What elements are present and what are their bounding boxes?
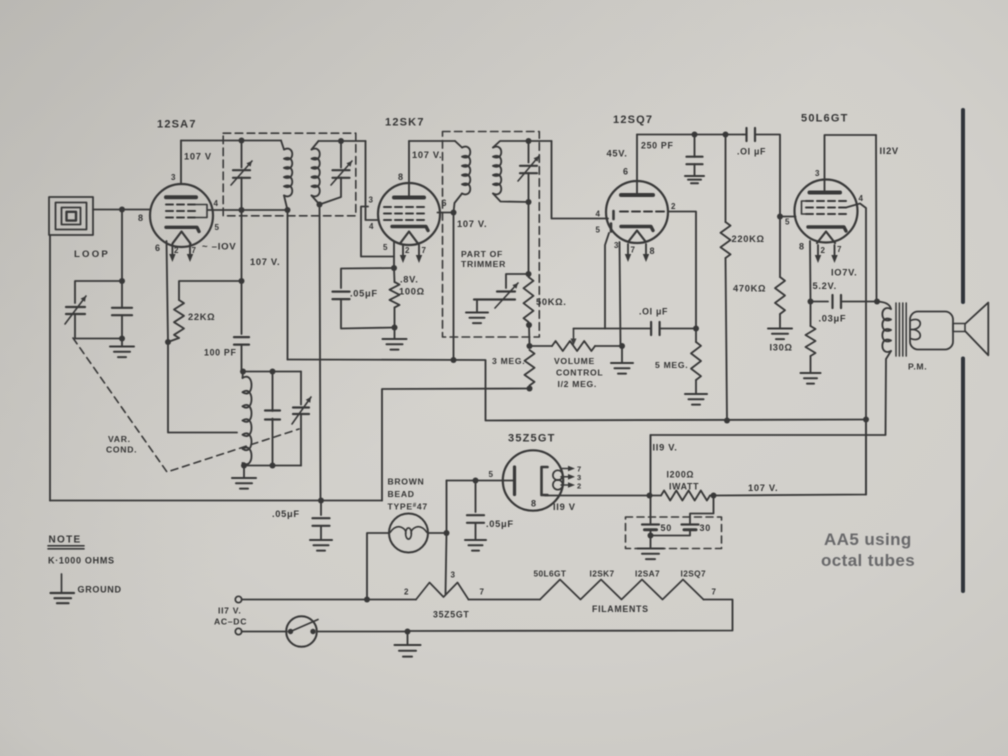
wire 12SK7 pin3 suppressor tie — [361, 207, 394, 257]
svg-text:50: 50 — [661, 523, 672, 533]
wire fixed cap top lead — [272, 372, 274, 412]
node 220K on bus — [724, 418, 730, 424]
wire primary bottom to 119V line — [651, 351, 892, 496]
svg-text:8: 8 — [531, 499, 537, 509]
wire 130ohm top lead — [810, 302, 812, 327]
svg-text:II9 V.: II9 V. — [653, 443, 678, 453]
svg-text:8: 8 — [398, 172, 404, 182]
switch lever — [291, 620, 319, 632]
capacitor C-plate .05uF plates — [467, 515, 484, 523]
inductor L4 IF2 secondary — [493, 147, 501, 195]
node 50L6 grid — [777, 214, 783, 220]
speaker driver rect — [953, 324, 965, 332]
svg-text:220KΩ: 220KΩ — [732, 234, 765, 244]
12SA7 heater pin 7 arrow — [187, 244, 193, 262]
svg-text:octal tubes: octal tubes — [821, 551, 915, 570]
svg-text:7: 7 — [480, 588, 485, 597]
wire 1200 right lead — [711, 495, 714, 497]
35Z5 heater tap arrow 3 — [561, 474, 575, 480]
node IF2 primary return on B+ bus — [451, 357, 457, 363]
svg-text:2: 2 — [405, 246, 410, 255]
svg-text:2: 2 — [404, 588, 409, 597]
svg-text:12SK7: 12SK7 — [385, 117, 425, 129]
wire 470K bottom lead — [779, 314, 781, 328]
wire cathode cap top lead — [341, 268, 394, 288]
wire cathode ground stem — [394, 328, 396, 339]
ground 5MEG — [685, 394, 707, 405]
wire wiper to coupling cap — [574, 328, 651, 330]
12SA7 cathode arrow — [173, 232, 191, 244]
wire 12SA7 plate rail — [181, 140, 281, 142]
svg-text:2: 2 — [671, 202, 676, 211]
node lamp return — [364, 597, 370, 603]
potentiometer R-VOL 1/2 MEG — [552, 341, 595, 351]
wire L3 bottom lead — [454, 194, 463, 213]
wire AVC link — [382, 389, 530, 501]
resistor R-50K 50KΩ — [524, 277, 534, 322]
capacitor C-coup .01uF plates — [651, 322, 660, 335]
wire 12SQ7 plate riser — [636, 135, 638, 182]
resistor R-22K 22KΩ — [174, 300, 184, 338]
wire IF2 sec rail right — [529, 140, 552, 142]
svg-text:TRIMMER: TRIMMER — [461, 259, 506, 269]
node 3MEG bottom — [527, 386, 533, 392]
node trimmer2 top — [338, 138, 344, 144]
speaker cone — [966, 303, 989, 356]
capacitor C-osc fixed plates — [265, 411, 280, 420]
svg-text:5 MEG.: 5 MEG. — [655, 360, 688, 370]
wire plate bypass stem — [475, 481, 477, 513]
svg-text:5: 5 — [596, 226, 601, 235]
wire padder ground lead — [476, 300, 478, 313]
wire L4 bottom down — [528, 202, 530, 274]
svg-text:45V.: 45V. — [607, 149, 628, 159]
svg-text:5: 5 — [785, 218, 790, 227]
capacitor C-k .05uF plates — [333, 292, 350, 300]
inductor L1 IF1 primary — [284, 149, 292, 197]
wire loop left side down to AVC bus — [49, 235, 51, 501]
wire coupling cap to grid riser — [660, 328, 696, 330]
tube 12SA7 envelope U1 — [150, 184, 213, 247]
wire 130ohm bottom lead — [810, 356, 812, 373]
wire line lower — [242, 631, 287, 633]
50L6GT cathode bar — [808, 227, 846, 231]
svg-text:II2V: II2V — [880, 146, 899, 156]
node 107V junction — [711, 493, 717, 499]
wire 50L6 pin4 screen — [846, 204, 866, 495]
svg-text:I30Ω: I30Ω — [770, 343, 793, 353]
wire 50L6 plate riser pin3 — [825, 135, 877, 180]
ground oscillator tank — [232, 478, 256, 489]
svg-text:8: 8 — [138, 213, 144, 223]
wire 50L6 plate stem — [824, 180, 826, 193]
inductor L-osc oscillator coil — [243, 377, 252, 465]
wire osc tank top — [243, 371, 301, 373]
svg-text:107 V.: 107 V. — [457, 219, 487, 229]
svg-text:II7 V.: II7 V. — [218, 606, 241, 616]
wire line upper — [242, 599, 416, 601]
wire pot left lead — [530, 345, 553, 347]
speaker voice coil frame — [910, 312, 953, 350]
dashed gang linkage VAR COND — [73, 338, 299, 472]
switch contact right — [310, 629, 315, 634]
wire AVC bypass stem — [320, 501, 322, 516]
wire trimmer3 top lead — [528, 141, 530, 163]
node fixed cap bottom — [270, 463, 276, 469]
svg-text:PART OF: PART OF — [461, 249, 503, 259]
wire L2 top lead — [312, 141, 319, 150]
variable capacitor C-osc-var plates — [293, 408, 309, 415]
35Z5 heater tap arrow 7 — [561, 466, 575, 472]
svg-text:.05μF: .05μF — [272, 509, 300, 519]
wire 50K to pot chain — [528, 325, 531, 346]
svg-text:AC–DC: AC–DC — [214, 617, 247, 627]
svg-text:IO7V.: IO7V. — [831, 268, 857, 278]
ground 250pF — [685, 176, 704, 183]
wire L1 top lead — [281, 141, 284, 150]
node L4 bottom — [526, 199, 532, 205]
capacitor C-pad (loop fixed) — [112, 308, 132, 315]
tube 12SQ7 envelope U3 — [606, 181, 668, 243]
svg-text:8: 8 — [650, 246, 656, 256]
wire filament mid — [469, 599, 541, 601]
svg-text:5.2V.: 5.2V. — [813, 281, 837, 291]
wire 12SK7 pin6 screen stub — [438, 212, 454, 214]
svg-text:VOLUME: VOLUME — [554, 356, 595, 366]
inductor T-out primary coil — [882, 308, 891, 352]
node L2 bottom — [317, 202, 323, 208]
svg-text:TYPE#47: TYPE#47 — [388, 502, 428, 512]
wire cathode cap bottom lead — [341, 299, 395, 329]
trimmer capacitor CT1 plates — [233, 170, 250, 178]
capacitor C-30 electrolytic plates — [682, 525, 699, 530]
svg-text:470KΩ: 470KΩ — [733, 284, 766, 294]
terminal lower 117V — [235, 628, 241, 634]
wire trimmer2 top lead — [340, 141, 342, 168]
svg-text:7: 7 — [837, 245, 842, 254]
wire 107V line — [714, 420, 867, 496]
wire rail through .01uF — [743, 134, 747, 136]
node IF2 sec top — [526, 138, 532, 144]
wire osc grid return down to AVC bus — [320, 205, 321, 501]
inductor L3 IF2 primary — [462, 147, 470, 195]
speaker baffle line upper — [961, 110, 965, 302]
svg-text:.OI μF: .OI μF — [737, 147, 766, 157]
wire 12SQ7 plate stem pin6 — [636, 181, 638, 195]
wire L4 bottom lead — [493, 194, 529, 203]
capacitor C-250pF plates — [687, 157, 703, 165]
wire 220K bottom to B+ bus — [726, 258, 728, 421]
wire 12SA7 pin6 to osc coil tap — [167, 241, 238, 433]
svg-text:107 V: 107 V — [184, 152, 212, 162]
resistor R-fil filament string — [540, 580, 704, 600]
pot wiper arrow — [571, 329, 577, 346]
svg-text:5: 5 — [215, 223, 220, 232]
wire 12SA7 pin4 screen line — [208, 209, 288, 211]
wire 35Z5 plate feed — [447, 480, 476, 482]
svg-text:COND.: COND. — [106, 445, 137, 455]
variable capacitor C-ant (loop tuning) — [66, 307, 85, 314]
svg-text:7: 7 — [631, 246, 636, 255]
output transformer secondary winding — [911, 319, 921, 339]
wire 250pF stem — [694, 135, 696, 157]
12SA7 grid dashes — [166, 205, 195, 218]
wire lamp left — [367, 533, 389, 600]
12SK7 anode bar — [394, 196, 424, 200]
svg-text:107 V.: 107 V. — [412, 150, 442, 160]
svg-text:4: 4 — [859, 194, 864, 203]
ground 12SK7 cathode — [383, 339, 407, 350]
wire tank ground stem — [121, 339, 123, 347]
node tank top — [119, 278, 125, 284]
wire tank left lower — [75, 314, 122, 339]
wire 12SQ7 plate rail — [637, 134, 743, 136]
12SQ7 diode plate pin5 — [610, 224, 613, 232]
svg-text:.05μF: .05μF — [486, 519, 514, 529]
wire 35Z5 cathode out — [545, 495, 650, 497]
svg-text:3: 3 — [614, 241, 619, 250]
svg-text:50L6GT: 50L6GT — [534, 569, 567, 579]
35Z5 heater tap arrow 2 — [561, 482, 575, 488]
svg-text:I200Ω: I200Ω — [667, 470, 695, 480]
wire 50L6 plate down to transformer — [875, 135, 878, 302]
node trimmer1 top — [239, 138, 245, 144]
ground 130ohm — [801, 373, 821, 384]
wire 35Z5 plate lead — [476, 480, 514, 482]
node tank bottom — [119, 336, 125, 342]
wire osc tank ground stem — [243, 466, 245, 478]
wire .01uF to 50L6 grid — [755, 135, 780, 217]
wire IF2 primary return — [453, 213, 455, 361]
capacitor C-out .01uF plates — [747, 128, 756, 141]
node 50K bottom — [526, 322, 532, 328]
switch SW1 — [286, 616, 317, 647]
wire trimmer1 top lead — [241, 141, 243, 168]
output transformer core — [896, 303, 906, 356]
osc var cap arrow — [292, 397, 311, 424]
svg-text:K·1000 OHMS: K·1000 OHMS — [48, 556, 115, 566]
wire 119V riser — [650, 435, 652, 496]
wire 12SK7 plate riser pin8 — [408, 141, 410, 183]
node padder junction — [526, 271, 532, 277]
resistor R-5MEG 5 MEG — [691, 342, 701, 380]
12SK7 grid dashes — [384, 207, 424, 220]
node cathode bypass — [808, 299, 814, 305]
svg-text:3 MEG.: 3 MEG. — [492, 356, 525, 366]
wire 50L6 cathode pin8 down — [809, 241, 812, 302]
wire loop to 12SA7 grid — [93, 209, 150, 211]
svg-text:3: 3 — [815, 169, 820, 178]
node tank bottom left — [241, 463, 247, 469]
node pot left end — [527, 343, 533, 349]
svg-text:6: 6 — [623, 167, 629, 177]
switch contact left — [288, 629, 293, 634]
svg-text:50KΩ.: 50KΩ. — [536, 297, 567, 307]
NOTE underline — [48, 546, 84, 549]
wire tank right upper — [121, 281, 123, 308]
svg-text:I2SA7: I2SA7 — [635, 569, 660, 579]
ground plate bypass — [465, 540, 486, 551]
svg-text:100 PF: 100 PF — [204, 348, 237, 358]
svg-text:BROWN: BROWN — [388, 477, 425, 487]
wire lamp right lead — [428, 532, 447, 534]
node L1 bottom — [285, 207, 291, 213]
wire var cap bottom lead — [300, 414, 302, 466]
wire 250pF ground stem — [694, 164, 696, 176]
node 220K top — [723, 132, 729, 138]
wire B+ bus — [288, 360, 867, 421]
wire 12SK7 plate rail to IF2 — [409, 140, 455, 142]
node grid riser bottom — [693, 326, 699, 332]
speaker baffle line lower — [961, 359, 965, 592]
svg-text:7: 7 — [192, 246, 197, 255]
pilot lamp filament — [390, 527, 427, 539]
12SK7 heater pin 2 arrow — [400, 245, 406, 263]
resistor R-k 100ohm — [390, 282, 400, 308]
svg-text:22KΩ: 22KΩ — [188, 312, 215, 322]
trimmer CT3 arrow — [518, 156, 539, 181]
ground 470K — [768, 329, 792, 340]
svg-text:5: 5 — [383, 243, 388, 252]
svg-text:FILAMENTS: FILAMENTS — [592, 604, 649, 614]
capacitor C-avc .05uF plates — [313, 518, 330, 526]
50L6 heater pin 2 arrow — [815, 245, 821, 263]
wire L2 bottom lead — [312, 196, 320, 205]
svg-text:100Ω: 100Ω — [399, 287, 425, 297]
node L3 bottom / screen — [451, 210, 457, 216]
inductor L2 IF1 secondary — [312, 149, 320, 197]
wire osc coil top lead — [242, 372, 245, 379]
trimmer CT2 arrow — [331, 161, 352, 185]
wire switch to ground node — [317, 631, 408, 633]
padder arrow — [495, 283, 518, 308]
wire 22K bottom lead — [168, 338, 179, 342]
wire trimmer2 bottom lead — [320, 178, 342, 205]
loop antenna LOOP — [49, 197, 93, 235]
svg-text:.03μF: .03μF — [819, 314, 847, 324]
12SQ7 cathode bar — [621, 227, 653, 231]
wire var cap top lead — [300, 372, 302, 405]
svg-text:35Z5GT: 35Z5GT — [508, 433, 556, 445]
12SQ7 anode bar — [621, 193, 653, 197]
node transformer primary top — [874, 299, 880, 305]
wire cap30 top lead — [690, 496, 714, 525]
node plate bypass — [473, 478, 479, 484]
wire pot ground stem — [621, 346, 623, 363]
svg-text:8: 8 — [799, 242, 805, 252]
50L6GT cathode arrow — [817, 232, 835, 244]
50L6GT grid dashes — [806, 201, 846, 214]
ground filter caps — [638, 549, 664, 560]
svg-text:250 PF: 250 PF — [641, 141, 674, 151]
12SA7 cathode bar — [166, 227, 199, 231]
wire L3 top lead — [455, 141, 462, 148]
wire cap50 stem — [650, 496, 652, 525]
ground under loop tank — [110, 347, 134, 358]
svg-text:107 V.: 107 V. — [250, 257, 280, 267]
svg-text:II9 V: II9 V — [553, 502, 576, 512]
wire 12SA7 pin3 plate riser — [180, 141, 182, 185]
resistor R-470K 470KΩ — [775, 277, 785, 314]
svg-text:30: 30 — [700, 523, 711, 533]
node 22K bottom — [165, 339, 171, 345]
svg-text:GROUND: GROUND — [78, 585, 122, 595]
ground symbol legend — [51, 574, 75, 603]
resistor R-3MEG 3 MEG — [525, 350, 535, 386]
svg-text:~ –IOV: ~ –IOV — [202, 242, 236, 253]
wire B+ riser from IF1 — [287, 210, 289, 360]
trimmer arrow on C-ant — [65, 296, 86, 324]
ground chassis — [395, 645, 421, 657]
trimmer CT1 arrow — [231, 161, 252, 185]
svg-text:.OI μF: .OI μF — [639, 307, 668, 317]
35Z5 heater loops — [553, 470, 563, 489]
wire padder top lead — [506, 274, 529, 288]
wire osc tank bottom — [244, 465, 301, 467]
svg-text:CONTROL: CONTROL — [556, 368, 603, 378]
svg-text:BEAD: BEAD — [388, 489, 415, 499]
wire IF1 secondary rail — [319, 140, 366, 142]
wire 12SK7 cathode pin5 stub — [393, 242, 395, 268]
wire 100pF to tank top — [241, 345, 243, 372]
node tank top left — [240, 369, 246, 375]
wire IF1 sec to 12SK7 grid — [366, 141, 379, 220]
12SK7 heater pin 7 arrow — [416, 245, 422, 263]
svg-text:I/2 MEG.: I/2 MEG. — [558, 379, 598, 389]
50L6GT anode bar — [810, 191, 841, 195]
svg-text:2: 2 — [821, 246, 826, 255]
ground padder — [466, 313, 488, 324]
wire 1200 left lead — [650, 495, 661, 497]
terminal upper 117V — [235, 596, 241, 602]
svg-text:.8V.: .8V. — [400, 275, 418, 285]
wire fixed cap bottom lead — [272, 419, 274, 466]
wire osc coil bottom lead — [243, 463, 245, 466]
wire lamp tap down — [446, 533, 447, 594]
wire 50L6 grid pin5 — [780, 216, 796, 218]
svg-text:IWATT: IWATT — [669, 482, 699, 492]
node loop-tank junction — [119, 207, 125, 213]
tube 35Z5GT envelope U5 — [503, 450, 563, 510]
svg-text:3: 3 — [369, 196, 374, 205]
wire 12SK7 plate stem — [408, 183, 410, 198]
resistor R-220K 220KΩ — [721, 222, 731, 258]
svg-text:107 V.: 107 V. — [748, 483, 778, 493]
svg-text:7: 7 — [712, 588, 717, 597]
ground volume pot — [611, 363, 633, 374]
12SA7 heater pin 2 arrow — [169, 244, 175, 262]
50L6GT grid left bracket — [802, 201, 807, 214]
svg-text:.05μF: .05μF — [350, 289, 378, 299]
50L6 heater pin 7 arrow — [831, 245, 837, 263]
wire 12SQ7 pin5 to wiper rail — [605, 233, 609, 329]
svg-text:2: 2 — [174, 246, 179, 255]
resistor R-tap 35Z5 filament section — [416, 583, 469, 600]
wire 100ohm bottom lead — [394, 308, 396, 328]
svg-text:4: 4 — [596, 210, 601, 219]
svg-text:LOOP: LOOP — [74, 249, 110, 260]
svg-text:I2SK7: I2SK7 — [590, 569, 615, 579]
wire grid line down to 100pF — [241, 210, 243, 334]
wire AVC bypass lower — [320, 526, 322, 540]
node trimmer1 bottom — [239, 207, 245, 213]
12SQ7 heater pin 7 arrow — [625, 244, 631, 262]
node 22K top on grid line — [239, 278, 245, 284]
node pot right / cathode — [619, 343, 625, 349]
svg-text:I2SQ7: I2SQ7 — [681, 569, 707, 579]
svg-text:5: 5 — [489, 470, 494, 479]
svg-text:2: 2 — [577, 481, 582, 490]
